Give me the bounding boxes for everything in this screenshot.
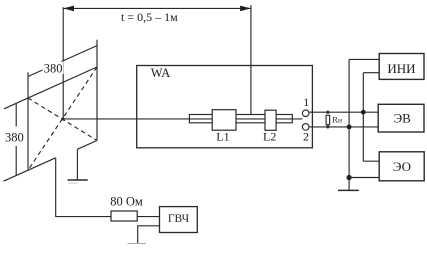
svg-text:ЭВ: ЭВ: [394, 111, 412, 126]
wire: resistor to ГВЧ: [137, 216, 159, 218]
box ИНИ: [379, 54, 424, 80]
arrowhead right of dimension t: [240, 6, 251, 12]
box ЭВ: [378, 104, 424, 132]
loop antenna W1: bottom edge left part (with extension): [4, 158, 56, 181]
generator box ГВЧ: [160, 207, 198, 233]
dimension line 380 (slanted, top of antenna): [28, 46, 97, 77]
svg-text:t = 0,5 – 1м: t = 0,5 – 1м: [121, 10, 178, 24]
resistor 80 Ом: [111, 211, 137, 221]
junction: Rн bottom: [326, 125, 329, 128]
box WA: [137, 66, 313, 148]
svg-text:80 Ом: 80 Ом: [110, 195, 143, 209]
bus A vertical: [348, 59, 350, 190]
wire: bottom horizontal to resistor: [55, 216, 111, 218]
terminal 1: [302, 110, 309, 117]
svg-text:380: 380: [5, 130, 24, 144]
wire: bus A to ИНИ: [349, 58, 379, 60]
loop antenna W1: bottom edge right part: [78, 141, 98, 150]
wire: right gap end down to ground: [76, 149, 78, 180]
svg-text:L1: L1: [216, 130, 229, 144]
wire: bus B to ЭО upper lead: [363, 160, 379, 162]
svg-text:ЭО: ЭО: [393, 159, 411, 174]
ground (right bus): [338, 189, 359, 191]
ground (antenna): [68, 179, 88, 181]
svg-text:1: 1: [303, 95, 309, 109]
svg-text:L2: L2: [263, 130, 276, 144]
junction: bus A / terminal-2 line: [347, 125, 352, 130]
wire: left gap end down: [55, 158, 57, 217]
svg-text:WA: WA: [151, 66, 170, 80]
wire: antenna centre vertical up to dimension t: [62, 7, 64, 119]
svg-text:Rн: Rн: [332, 115, 342, 125]
junction: bus B / terminal-1 line: [361, 110, 366, 115]
diagonal dashed TR-BL: [28, 67, 97, 170]
svg-text:2: 2: [303, 129, 309, 143]
wire: bus A to ЭО lower lead: [349, 177, 379, 179]
junction: bus A / ЭО lower lead: [347, 175, 352, 180]
node: antenna centre: [61, 117, 64, 120]
wire: bus B to ИНИ: [363, 72, 379, 74]
resistor Rн: [326, 115, 330, 124]
wire: ГВЧ lower lead to ground: [138, 226, 160, 244]
coil L2: [265, 110, 276, 130]
loop antenna W1: left edge (with extension up): [27, 72, 29, 170]
rod (coaxial line) in WA: [189, 115, 292, 123]
label 380 (left dimension): [4, 127, 26, 147]
label 380 (slanted dimension): [43, 62, 64, 75]
dimension line t (top): [63, 7, 251, 9]
svg-text:380: 380: [44, 61, 63, 75]
dimension line 380 (vertical, left of antenna): [15, 103, 17, 175]
loop antenna W1: right edge (with extension up): [96, 40, 98, 141]
extension line right of dimension t down to rod: [250, 5, 252, 114]
arrowhead left of dimension t: [63, 6, 74, 12]
svg-text:ГВЧ: ГВЧ: [168, 213, 190, 225]
bus B vertical: [362, 73, 364, 162]
coil L1: [212, 110, 236, 131]
diagonal dashed TL-BR: [28, 98, 97, 141]
junction: Rн top: [326, 111, 329, 114]
wire: terminal 2 to ЭВ: [309, 126, 379, 128]
loop antenna W1: top edge: [4, 67, 97, 109]
svg-text:ИНИ: ИНИ: [387, 61, 415, 76]
wire: feed line from antenna centre through rod to terminals: [63, 118, 302, 120]
terminal 2: [302, 124, 309, 131]
ground (under ГВЧ): [127, 243, 146, 245]
box ЭО: [379, 152, 424, 181]
wire: terminal 1 to ЭВ: [309, 111, 379, 113]
